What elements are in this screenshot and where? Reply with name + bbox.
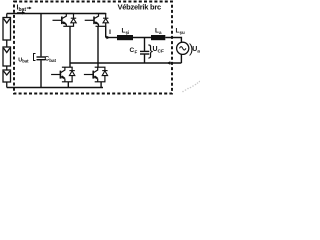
svg-text:şu: şu <box>180 30 186 35</box>
svg-text:şi: şi <box>126 30 130 35</box>
svg-text:a: a <box>197 50 200 55</box>
svg-text:a: a <box>159 30 162 35</box>
svg-text:F: F <box>135 50 138 55</box>
svg-text:bat: bat <box>49 58 56 63</box>
svg-text:bat: bat <box>22 59 29 64</box>
svg-text:Vébzelrik brc: Vébzelrik brc <box>118 3 162 12</box>
svg-text:CF: CF <box>158 49 164 55</box>
